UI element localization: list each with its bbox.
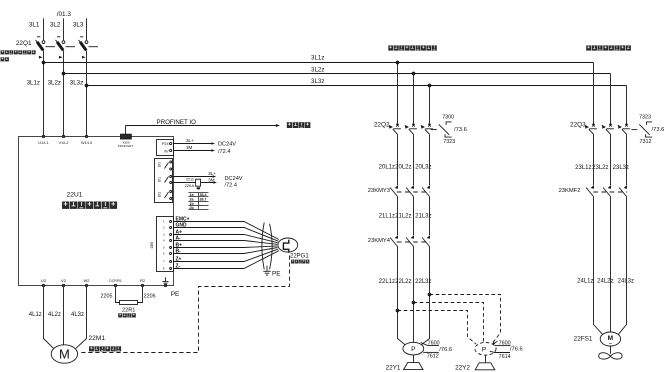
svg-text:R2: R2 bbox=[140, 278, 146, 283]
wire encoder EMC+ bbox=[174, 217, 279, 240]
svg-text:23L3z: 23L3z bbox=[613, 165, 629, 171]
contactor 22Q2 (brake supply) bbox=[374, 121, 433, 134]
svg-text:21L3z: 21L3z bbox=[415, 214, 431, 220]
wire PROFINET IO bbox=[126, 119, 281, 134]
contactor 22Q3 (fan supply) bbox=[570, 121, 630, 134]
wire bus 3L1z bbox=[42, 61, 593, 64]
terminal W1/L3 bbox=[81, 135, 92, 145]
svg-text:22L1z: 22L1z bbox=[379, 279, 395, 285]
svg-text:22Y2: 22Y2 bbox=[455, 365, 470, 372]
svg-text:0V: 0V bbox=[164, 149, 169, 153]
wire encoder GND bbox=[174, 223, 279, 242]
wire 23L2z bbox=[610, 134, 612, 185]
svg-text:/76.6: /76.6 bbox=[510, 347, 523, 353]
wire 3L+ (DI supply) bbox=[172, 171, 216, 178]
wire tap 2 to 22Q2 bbox=[412, 72, 415, 125]
motor 22M1 (grab support motor) bbox=[51, 335, 105, 363]
frequency converter 22U1 box bbox=[19, 137, 174, 286]
wire 20L2z bbox=[413, 134, 415, 185]
node 3L1z label mid bbox=[311, 54, 324, 61]
svg-text:PROFINET: PROFINET bbox=[118, 144, 133, 148]
contactor 23KMY3 bbox=[397, 191, 430, 193]
wire tap 3 to 22Q2 bbox=[428, 84, 431, 125]
ground PE (cable screen) bbox=[263, 266, 280, 278]
svg-text:20L1z: 20L1z bbox=[379, 165, 395, 171]
wire encoder A- bbox=[174, 236, 278, 245]
svg-text:U2: U2 bbox=[41, 278, 47, 283]
svg-text:22PG1: 22PG1 bbox=[290, 254, 309, 260]
auxiliary contact 22Q2 7300/7323 bbox=[431, 114, 467, 145]
wire 20L1z bbox=[397, 134, 399, 185]
svg-text:3L3z: 3L3z bbox=[70, 79, 83, 86]
node 7600 //76.6 /7612 leaders (22Y1) bbox=[421, 340, 452, 359]
brake 22Y1 base bbox=[404, 355, 423, 370]
svg-text:22Y1: 22Y1 bbox=[386, 365, 401, 372]
wire 4L2z bbox=[48, 287, 64, 345]
terminal R2 bbox=[140, 278, 146, 286]
brake 22Y1 bbox=[386, 342, 424, 371]
svg-text:22Q1: 22Q1 bbox=[16, 40, 32, 47]
wire tap to 22Q3 (3L2z) bbox=[610, 74, 612, 125]
connector X150 PROFINET bbox=[118, 134, 133, 148]
svg-text:3L+: 3L+ bbox=[208, 171, 216, 176]
wire 22L2z bbox=[412, 246, 415, 342]
wire bus 3L2z bbox=[62, 72, 610, 75]
terminal U2 bbox=[41, 278, 47, 286]
wire 4L1z bbox=[29, 287, 54, 349]
svg-text:22L2z: 22L2z bbox=[395, 279, 411, 285]
svg-text:7300: 7300 bbox=[442, 114, 454, 120]
relay coil 22KA bbox=[185, 178, 201, 190]
svg-text:20L2z: 20L2z bbox=[395, 165, 411, 171]
wire 3M via relay 22KA bbox=[172, 178, 217, 184]
svg-text:7612: 7612 bbox=[427, 354, 439, 360]
svg-text:DC24V: DC24V bbox=[225, 176, 243, 182]
svg-text:22Q3: 22Q3 bbox=[570, 121, 586, 128]
label 22U1 bbox=[67, 192, 83, 199]
wire 21L2z bbox=[413, 197, 415, 236]
svg-text:3L2: 3L2 bbox=[50, 22, 61, 29]
wire 22L1z bbox=[396, 246, 405, 344]
svg-text:24L2z: 24L2z bbox=[597, 279, 613, 285]
contact cross-reference table 22KA bbox=[188, 193, 208, 211]
wire 24L3z bbox=[619, 197, 627, 335]
svg-text:PE: PE bbox=[272, 271, 281, 278]
wire tap to 22Q3 (3L3z) bbox=[626, 86, 628, 125]
label to-switch (Chinese) bbox=[287, 122, 311, 128]
svg-text:GND: GND bbox=[176, 223, 188, 229]
wire 24L2z bbox=[610, 197, 612, 333]
wire encoder Z+ bbox=[174, 249, 279, 262]
svg-text:23KMY4: 23KMY4 bbox=[368, 238, 391, 244]
svg-text:P24: P24 bbox=[162, 142, 169, 146]
wire 2205 bbox=[101, 287, 120, 303]
svg-text:V2: V2 bbox=[61, 278, 67, 283]
svg-text:PROFINET IO: PROFINET IO bbox=[157, 119, 197, 126]
svg-text:4L2z: 4L2z bbox=[48, 312, 61, 318]
svg-text:P: P bbox=[482, 346, 487, 353]
svg-text:/72.4: /72.4 bbox=[218, 149, 230, 155]
wire encoder A+ bbox=[174, 230, 278, 243]
svg-text:Z-: Z- bbox=[176, 264, 181, 270]
resistor 22R1 (braking resistor) bbox=[120, 301, 138, 314]
svg-text:22Q2: 22Q2 bbox=[374, 121, 390, 128]
svg-text:22L3z: 22L3z bbox=[415, 279, 431, 285]
svg-text:3M: 3M bbox=[208, 178, 215, 183]
svg-text:3L1z: 3L1z bbox=[311, 54, 324, 61]
label grab support motor brake (Chinese header) bbox=[388, 45, 437, 50]
svg-text:3L1z: 3L1z bbox=[27, 79, 40, 86]
svg-text:DCP/R1: DCP/R1 bbox=[109, 279, 122, 283]
svg-text:38.7: 38.7 bbox=[200, 198, 207, 202]
terminal V1/L2 bbox=[59, 135, 69, 145]
svg-text:2211: 2211 bbox=[186, 178, 194, 182]
svg-text:23L1z: 23L1z bbox=[575, 165, 591, 171]
node DC24V /72.4 (lower) bbox=[225, 176, 243, 189]
terminal U1/L1 bbox=[38, 135, 48, 145]
wire dashed branch to 22Y2 (from 22L2z) bbox=[414, 303, 484, 343]
svg-text:7600: 7600 bbox=[499, 341, 511, 347]
svg-text:/73.6: /73.6 bbox=[454, 127, 467, 133]
svg-text:/01.3: /01.3 bbox=[57, 11, 72, 18]
svg-text:3L2z: 3L2z bbox=[48, 79, 61, 86]
node 20L1z 20L2z 20L3z labels bbox=[379, 165, 432, 171]
svg-text:/72.4: /72.4 bbox=[225, 183, 237, 189]
svg-text:3M: 3M bbox=[186, 145, 193, 150]
wire dashed branch to 22Y2 (from 22L1z) bbox=[398, 311, 477, 345]
svg-text:38.4: 38.4 bbox=[200, 193, 207, 197]
label incremental encoder (Chinese) bbox=[291, 260, 309, 264]
fan motor 22FS1 bbox=[574, 332, 621, 347]
node 3L3z label mid bbox=[311, 78, 324, 85]
svg-text:22KA: 22KA bbox=[185, 184, 195, 188]
svg-text:W2: W2 bbox=[84, 278, 91, 283]
wire 3M to /72.4 bbox=[174, 145, 216, 152]
label braking resistor (Chinese) bbox=[118, 313, 136, 317]
terminal block DI0-DI2 bbox=[155, 159, 173, 203]
svg-text:22FS1: 22FS1 bbox=[574, 336, 593, 343]
svg-text:7614: 7614 bbox=[499, 354, 511, 360]
terminal V2 bbox=[61, 278, 67, 286]
wire 2206 bbox=[138, 287, 156, 303]
svg-text:24L3z: 24L3z bbox=[618, 279, 634, 285]
wire tap 1 to 22Q2 bbox=[396, 61, 399, 125]
svg-text:DC24V: DC24V bbox=[218, 142, 236, 148]
node 22L1z 22L2z 22L3z labels bbox=[379, 279, 432, 285]
wire 23L3z bbox=[626, 134, 628, 185]
wire 21L3z bbox=[429, 197, 431, 236]
node 3L2z label left bbox=[48, 79, 61, 86]
wire 21L1z bbox=[397, 197, 399, 236]
svg-text:P: P bbox=[411, 346, 416, 353]
brake 22Y2 base bbox=[475, 355, 495, 370]
svg-text:DB9: DB9 bbox=[150, 242, 154, 249]
svg-text:4L3z: 4L3z bbox=[71, 312, 84, 318]
wire 3L1 incoming bbox=[29, 18, 44, 40]
svg-text:20L3z: 20L3z bbox=[415, 165, 431, 171]
node 23L1z 23L2z 23L3z labels bbox=[575, 165, 629, 171]
svg-text:4L1z: 4L1z bbox=[29, 312, 42, 318]
svg-text:22M1: 22M1 bbox=[89, 335, 106, 342]
contactor 23KMY4 bbox=[397, 241, 430, 243]
svg-text:PE: PE bbox=[171, 291, 180, 298]
svg-text:DI1: DI1 bbox=[158, 177, 162, 182]
svg-text:21L2z: 21L2z bbox=[395, 214, 411, 220]
label grab support motor (Chinese) bbox=[89, 346, 121, 351]
svg-text:23L2z: 23L2z bbox=[592, 165, 608, 171]
wire 22L3z bbox=[421, 246, 431, 344]
svg-text:V1/L2: V1/L2 bbox=[59, 141, 69, 145]
fan propeller bbox=[599, 346, 622, 359]
node 7600 //76.6 /7614 leaders (22Y2) bbox=[490, 341, 523, 360]
terminal PE with ground symbol bbox=[162, 277, 179, 298]
svg-text:3L1: 3L1 bbox=[29, 22, 40, 29]
svg-text:Z+: Z+ bbox=[176, 257, 182, 263]
svg-text:U1/L1: U1/L1 bbox=[38, 141, 48, 145]
svg-text:W1/L3: W1/L3 bbox=[81, 141, 92, 145]
terminal block DB9 encoder interface bbox=[150, 217, 174, 272]
terminal W2 bbox=[84, 278, 91, 286]
wire 20L3z bbox=[429, 134, 431, 185]
svg-text:23KMF2: 23KMF2 bbox=[559, 188, 581, 194]
svg-text:A-: A- bbox=[176, 236, 182, 242]
svg-text:22U1: 22U1 bbox=[67, 192, 83, 199]
wire 3L2 incoming bbox=[50, 18, 64, 40]
terminal block P24/0V bbox=[157, 140, 174, 156]
svg-text:M: M bbox=[59, 347, 70, 362]
node /01.3 sheet reference bbox=[57, 11, 72, 18]
svg-text:B-: B- bbox=[176, 249, 182, 255]
svg-text:24L1z: 24L1z bbox=[577, 279, 593, 285]
label 22Q1 Chinese: grab support fast isolating switch bbox=[1, 50, 36, 61]
node DC24V /72.4 (upper) bbox=[218, 142, 236, 155]
wire encoder Z- bbox=[174, 251, 279, 270]
switch-fuse 22Q1 (grab support fast isolating switch) bbox=[16, 37, 98, 136]
svg-text:23KMY3: 23KMY3 bbox=[368, 188, 390, 194]
mechanical link (dashed) encoder-to-motor bbox=[79, 256, 290, 353]
wire dashed branch to 22Y2 (from 22L3z) bbox=[430, 295, 501, 343]
svg-text:3L3: 3L3 bbox=[73, 22, 84, 29]
brake 22Y2 (option, dashed) bbox=[475, 343, 496, 356]
wire 3L+ to DC24V bbox=[174, 138, 216, 145]
svg-text:/73.6: /73.6 bbox=[652, 127, 665, 133]
contactor 23KMF2 bbox=[593, 191, 627, 193]
wire 4L3z bbox=[71, 287, 87, 349]
wire 3L3 incoming bbox=[73, 18, 87, 40]
node 24L1z 24L2z 24L3z labels bbox=[577, 279, 634, 285]
svg-text:3L2z: 3L2z bbox=[311, 67, 324, 74]
svg-text:2205: 2205 bbox=[101, 294, 113, 300]
wire tap to 22Q3 (3L1z) bbox=[593, 63, 595, 125]
svg-text:3L+: 3L+ bbox=[186, 138, 194, 143]
wire encoder B- bbox=[174, 248, 278, 255]
encoder plug 22PG1 bbox=[278, 238, 309, 260]
svg-text:22R1: 22R1 bbox=[122, 307, 135, 313]
node 21L1z 21L2z 21L3z labels bbox=[379, 214, 432, 220]
svg-text:21L1z: 21L1z bbox=[379, 214, 395, 220]
wire 23L1z bbox=[593, 134, 595, 185]
node 3L3z label left bbox=[70, 79, 83, 86]
auxiliary contact 22Q3 7323/7312 bbox=[631, 114, 664, 145]
wire 24L1z bbox=[594, 197, 603, 335]
svg-text:2206: 2206 bbox=[144, 294, 156, 300]
svg-text:7323: 7323 bbox=[443, 139, 455, 145]
svg-text:/76.6: /76.6 bbox=[439, 347, 452, 353]
node 3L1z label left bbox=[27, 79, 40, 86]
cable screen arcs bbox=[262, 223, 272, 270]
svg-text:DI0: DI0 bbox=[158, 162, 162, 167]
terminal DCP/R1 bbox=[109, 279, 122, 286]
label grab support motor fan (Chinese header) bbox=[586, 45, 631, 50]
node 3L2z label mid bbox=[311, 67, 324, 74]
svg-text:7323: 7323 bbox=[639, 114, 651, 120]
wire encoder B+ bbox=[174, 243, 278, 249]
label 22U1 Chinese: grab support frequency converter bbox=[62, 202, 117, 209]
wire bus 3L3z bbox=[85, 84, 626, 87]
svg-text:3L3z: 3L3z bbox=[311, 78, 324, 85]
svg-text:7312: 7312 bbox=[640, 139, 652, 145]
svg-text:7600: 7600 bbox=[428, 340, 440, 346]
svg-text:DI2: DI2 bbox=[158, 192, 162, 197]
